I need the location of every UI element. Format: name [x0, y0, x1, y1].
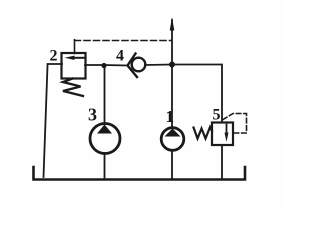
- relief valve 2 body: [62, 53, 86, 79]
- pilot line: dashed pilot loop of valve 5: [223, 114, 247, 134]
- junction node B: [169, 62, 175, 68]
- pump 1 circle: [161, 128, 184, 151]
- wire: relief valve 5 outlet into tank: [221, 145, 223, 179]
- pump 1 flow triangle: [165, 129, 181, 137]
- pilot line: dashed remote control line of valve 2 to main line: [74, 40, 76, 54]
- relief valve 5 flow arrow: [226, 125, 228, 136]
- outlet arrowhead: [170, 17, 175, 31]
- wire: relief valve 2 outlet to tank: [44, 64, 63, 177]
- wire: check valve 4 to junction B: [145, 64, 172, 67]
- wire: junction B to relief valve 5 inlet: [172, 65, 222, 123]
- pump 3 circle: [90, 124, 120, 154]
- pump 3 flow triangle: [97, 125, 112, 134]
- junction node A: [101, 63, 106, 68]
- check valve 4 ball: [132, 58, 146, 72]
- wire: junction A to check valve 4: [104, 64, 128, 67]
- relief valve 5 spring: [194, 127, 213, 139]
- check valve 4 seat: [128, 54, 138, 78]
- svg-text:5: 5: [213, 107, 221, 124]
- wire: relief valve 2 to junction A: [85, 64, 104, 66]
- relief valve 2 flow arrow: [71, 57, 84, 59]
- svg-text:4: 4: [116, 48, 124, 65]
- svg-text:2: 2: [50, 48, 58, 65]
- svg-text:3: 3: [88, 105, 97, 125]
- wire: main pressure line with outlet arrow: [171, 20, 173, 128]
- wire: junction A down to pump 3: [104, 65, 106, 124]
- relief valve 2 spring: [63, 79, 83, 97]
- wire: pump 1 suction into tank: [171, 150, 173, 179]
- relief valve 5 body: [212, 123, 233, 146]
- wire: pump 3 suction into tank: [104, 153, 106, 179]
- svg-text:1: 1: [166, 107, 175, 126]
- tank: [34, 167, 246, 180]
